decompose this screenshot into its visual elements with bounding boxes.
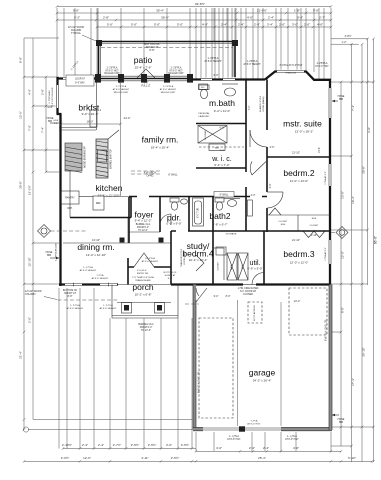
svg-text:3’-0½”: 3’-0½” — [61, 456, 70, 460]
right witness lines — [331, 81, 374, 83]
svg-text:4’-0”: 4’-0” — [202, 23, 208, 27]
mbath north wall — [192, 78, 265, 80]
hall west wall — [245, 168, 247, 231]
svg-text:6’-6” x 5’-0”: 6’-6” x 5’-0” — [247, 267, 262, 271]
pdr west wall — [159, 197, 161, 233]
svg-text:brkfst.: brkfst. — [78, 103, 101, 113]
svg-text:8” WALL: 8” WALL — [220, 194, 230, 197]
svg-text:13’-4” x 12’-10”: 13’-4” x 12’-10” — [86, 253, 106, 257]
util east wall — [263, 231, 265, 285]
svg-text:LDGR AT: LDGR AT — [75, 78, 85, 81]
svg-text:17’-4”: 17’-4” — [351, 378, 355, 386]
foyer west wall — [128, 197, 130, 244]
svg-text:SOFFIT AT: SOFFIT AT — [165, 274, 177, 277]
svg-text:3’-4”: 3’-4” — [267, 23, 273, 27]
svg-text:5’-0”: 5’-0” — [131, 23, 137, 27]
svg-text:BIB: BIB — [339, 98, 343, 101]
svg-text:6’-0” TUB: 6’-0” TUB — [198, 208, 200, 218]
dimension tier T1 — [57, 12, 331, 14]
front wall study segment — [171, 283, 196, 285]
svg-text:1- ¹⁄₂”PLA: 1- ¹⁄₂”PLA — [229, 435, 239, 438]
svg-text:8’-8”: 8’-8” — [149, 48, 154, 52]
svg-text:25’-4”: 25’-4” — [258, 456, 266, 460]
svg-text:10’-4” x 10’-4”: 10’-4” x 10’-4” — [189, 258, 208, 262]
svg-text:3’-0”: 3’-0” — [269, 183, 272, 188]
garage north wall — [196, 283, 331, 285]
svg-text:1- ³⁄₀”PLA: 1- ³⁄₀”PLA — [70, 304, 80, 307]
top wall brkfst segment — [57, 77, 99, 79]
left exterior wall lower — [59, 114, 61, 286]
svg-text:MULLED UNIT: MULLED UNIT — [114, 92, 129, 94]
bedrm3 north wall — [246, 230, 331, 232]
kitchen ref — [93, 196, 104, 210]
svg-text:9’-4” x 11’-0”: 9’-4” x 11’-0” — [214, 109, 231, 113]
pdr east wall — [188, 197, 190, 232]
master bedroom door swing — [250, 130, 267, 147]
top witness lines to house wall — [56, 8, 58, 77]
section marker left — [38, 225, 51, 238]
svg-text:4’-6”: 4’-6” — [28, 89, 32, 95]
svg-text:16’-0”: 16’-0” — [87, 120, 94, 124]
patio soffit dashed line — [101, 47, 233, 49]
svg-text:1- ³⁄₀”PLA: 1- ³⁄₀”PLA — [83, 266, 93, 269]
svg-text:MULLED UNIT: MULLED UNIT — [161, 92, 176, 94]
svg-text:TO 12’-0”: TO 12’-0” — [141, 329, 151, 332]
svg-text:¹⁄₂”PLA AT 8’-0”: ¹⁄₂”PLA AT 8’-0” — [324, 171, 327, 185]
hose bib left — [50, 122, 59, 124]
foyer hall opening line — [128, 242, 171, 244]
svg-text:DOOR (BARN): DOOR (BARN) — [262, 96, 265, 111]
svg-text:2’-7½”: 2’-7½” — [113, 443, 122, 447]
svg-text:19’-4” x 20’-4”: 19’-4” x 20’-4” — [151, 146, 170, 150]
svg-text:1- 3’6”PLA: 1- 3’6”PLA — [208, 57, 219, 60]
kitchen south wall — [70, 217, 128, 219]
svg-text:WOOD BURNING FP: WOOD BURNING FP — [85, 145, 87, 168]
svg-text:12’-6”: 12’-6” — [19, 111, 23, 119]
svg-text:9’-0”: 9’-0” — [73, 9, 79, 13]
svg-text:PANTRY: PANTRY — [65, 197, 75, 200]
svg-text:13’-4”: 13’-4” — [294, 299, 301, 303]
svg-text:9’-4” x 12’-2”: 9’-4” x 12’-2” — [135, 219, 152, 223]
mbath east wall — [245, 80, 247, 169]
svg-text:2’-0”: 2’-0” — [279, 23, 285, 27]
svg-text:16’-8”PLA: 16’-8”PLA — [145, 257, 155, 260]
hose bib right top — [332, 100, 338, 102]
svg-text:21’-4”: 21’-4” — [19, 351, 23, 359]
svg-text:AT 8’-0” HEIGHT.: AT 8’-0” HEIGHT. — [67, 307, 84, 310]
svg-text:4’-0”: 4’-0” — [216, 446, 222, 450]
svg-text:2- 2’8”PLA: 2- 2’8”PLA — [116, 85, 127, 88]
kitchen-bar east wall — [130, 197, 132, 218]
interior dim line family-kitchen — [120, 82, 122, 196]
bottom tier row1 garage — [196, 450, 341, 452]
wic south wall — [196, 167, 246, 169]
svg-text:16’-2½”: 16’-2½” — [28, 185, 32, 195]
transom window in bay — [277, 70, 304, 74]
svg-text:8’-0”: 8’-0” — [168, 278, 173, 280]
svg-text:BIB: BIB — [48, 120, 52, 123]
left long witness to bottom — [33, 419, 192, 421]
svg-text:24’-2” x 26’-4”: 24’-2” x 26’-4” — [253, 379, 272, 383]
foyer south wall and entry — [128, 266, 171, 268]
svg-text:2- 2’8”PLA AT: 2- 2’8”PLA AT — [48, 90, 51, 104]
study closet — [213, 247, 224, 249]
right top witness lines — [331, 38, 368, 40]
svg-text:porch: porch — [132, 282, 154, 292]
svg-text:SHAKER STYLE: SHAKER STYLE — [259, 95, 262, 112]
study east wall — [212, 231, 214, 285]
svg-text:AT 8’-0” HGT.: AT 8’-0” HGT. — [285, 438, 299, 441]
svg-text:4’-0”: 4’-0” — [247, 16, 253, 20]
svg-text:2’-4”: 2’-4” — [82, 443, 88, 447]
svg-text:2’-10”: 2’-10” — [311, 234, 317, 237]
svg-text:2’-8”: 2’-8” — [254, 23, 260, 27]
bottom tier row1 left — [63, 448, 196, 450]
svg-text:4’-11”: 4’-11” — [141, 456, 148, 460]
svg-text:AT 8’-0” HEIGHT: AT 8’-0” HEIGHT — [204, 60, 222, 63]
svg-text:AT 8’-0” HEIGHT.: AT 8’-0” HEIGHT. — [92, 277, 109, 280]
shower enclosure — [198, 126, 227, 144]
svg-text:4’-0”: 4’-0” — [317, 23, 323, 27]
svg-text:3’-5½”: 3’-5½” — [131, 443, 140, 447]
svg-text:HDR: HDR — [54, 120, 59, 122]
svg-text:8’-0”: 8’-0” — [214, 74, 219, 77]
svg-text:REF.: REF. — [96, 202, 102, 205]
svg-text:36’-0”: 36’-0” — [161, 16, 169, 20]
svg-text:1’-2”: 1’-2” — [341, 41, 346, 44]
right dimension line E x373 — [373, 39, 375, 462]
closet shelf line — [267, 214, 331, 216]
svg-text:¹⁄₂”PLA: ¹⁄₂”PLA — [96, 274, 104, 277]
svg-text:OPNG: OPNG — [146, 175, 153, 178]
svg-text:30’-8”: 30’-8” — [361, 166, 365, 174]
svg-text:25’-4” x 7’-6”: 25’-4” x 7’-6” — [135, 66, 152, 70]
svg-text:family rm.: family rm. — [142, 135, 179, 145]
master suite bay bump wall — [265, 72, 331, 80]
svg-text:12’-0”: 12’-0” — [341, 251, 345, 259]
svg-text:8’x8” O.H. GAR. DR.: 8’x8” O.H. GAR. DR. — [325, 319, 328, 341]
svg-text:WASH: WASH — [230, 263, 233, 270]
svg-text:PEDESTAL: PEDESTAL — [198, 112, 210, 115]
util door to garage — [196, 288, 207, 302]
svg-text:AT 8’-0” HEIGHT: AT 8’-0” HEIGHT — [243, 63, 261, 66]
left wall jog step — [57, 113, 62, 115]
svg-text:8” WALL: 8” WALL — [168, 174, 178, 177]
garage attic dashed rect right — [289, 288, 327, 335]
bath2 sink — [227, 200, 236, 207]
svg-text:1- ¹⁄₂”PLA: 1- ¹⁄₂”PLA — [287, 435, 297, 438]
bath2 north wall — [129, 196, 267, 198]
svg-text:LAVATORY: LAVATORY — [198, 115, 210, 118]
svg-text:CLOSET: CLOSET — [218, 261, 220, 270]
svg-text:9’-0”: 9’-0” — [214, 295, 219, 298]
util door swing — [252, 273, 264, 285]
garage south wall — [193, 427, 332, 430]
left dimension line A — [23, 38, 25, 430]
svg-text:49’-8½”: 49’-8½” — [195, 2, 205, 6]
svg-text:7’-4”: 7’-4” — [351, 105, 355, 111]
bath2 toilet — [215, 198, 224, 202]
svg-text:2- 2’8”PLA: 2- 2’8”PLA — [171, 67, 182, 70]
porch beam line — [117, 302, 171, 304]
svg-text:TYPICAL: TYPICAL — [71, 32, 82, 35]
svg-text:3’-0”: 3’-0” — [251, 194, 256, 197]
svg-text:BOTTOM OF: BOTTOM OF — [164, 272, 178, 274]
svg-text:AT 8’-0” HGT: AT 8’-0” HGT — [315, 65, 329, 68]
svg-text:21’-10”: 21’-10” — [292, 238, 300, 242]
svg-text:2’-4”: 2’-4” — [98, 443, 104, 447]
svg-text:30’-8”: 30’-8” — [19, 181, 23, 189]
svg-text:R&S: R&S — [220, 150, 225, 152]
porch column west — [122, 303, 132, 314]
svg-text:2’-4”: 2’-4” — [221, 23, 227, 27]
svg-text:MULLED UNIT: MULLED UNIT — [104, 73, 120, 75]
svg-text:BARREL BAR TOP: BARREL BAR TOP — [110, 149, 113, 169]
svg-text:AT 8’-0” HEIGHT.: AT 8’-0” HEIGHT. — [142, 260, 159, 263]
svg-text:w. i. c.: w. i. c. — [211, 156, 232, 163]
svg-text:1’-9” TEMP 6’-8” HIGH: 1’-9” TEMP 6’-8” HIGH — [132, 277, 154, 279]
svg-text:TRANSOM: TRANSOM — [285, 72, 296, 75]
svg-text:7’-4”: 7’-4” — [248, 105, 251, 110]
kitchen west counter — [69, 170, 71, 218]
svg-text:8’-0”: 8’-0” — [341, 307, 345, 313]
pdr door swing — [160, 214, 171, 225]
mbath toilet — [199, 85, 209, 90]
svg-text:CLOSET: CLOSET — [279, 221, 288, 223]
svg-text:W.C.: W.C. — [201, 87, 206, 89]
svg-text:R&S: R&S — [281, 224, 286, 226]
svg-text:6’8”: 6’8” — [54, 123, 58, 125]
svg-text:5’-8” x 9’-7”: 5’-8” x 9’-7” — [212, 223, 227, 227]
svg-text:11’-0” x 13’-0”: 11’-0” x 13’-0” — [290, 179, 308, 183]
porch column east — [155, 303, 165, 314]
mbath south wall — [196, 123, 246, 125]
right dimension line C x362 — [361, 44, 363, 462]
entry door transom triangle — [134, 253, 154, 267]
svg-text:2’-4”: 2’-4” — [268, 16, 274, 20]
svg-text:AT 8’-0” HEIGHT: AT 8’-0” HEIGHT — [160, 88, 177, 91]
kitchen SE corner line — [127, 218, 129, 244]
bath2 east wall — [212, 197, 214, 232]
svg-text:9’-8”: 9’-8” — [297, 16, 303, 20]
dimension tier T0 overall width 49-8 — [57, 6, 331, 8]
garage west wall — [193, 285, 196, 431]
closet bifold doors — [269, 208, 281, 215]
svg-text:TRANSOM ABV: TRANSOM ABV — [135, 279, 151, 282]
svg-text:12’-0” x 12’-0”: 12’-0” x 12’-0” — [290, 261, 309, 265]
right dimension line D x367 — [367, 39, 369, 285]
porch slab edge — [112, 315, 178, 317]
pdr toilet — [170, 198, 179, 202]
svg-text:bath2: bath2 — [209, 211, 231, 221]
svg-text:3’-8½”: 3’-8½” — [344, 34, 351, 38]
svg-text:13’-0”: 13’-0” — [341, 191, 345, 199]
svg-text:6’-6”: 6’-6” — [220, 127, 225, 130]
svg-text:10’-2” x 6’-8”: 10’-2” x 6’-8” — [135, 293, 152, 297]
svg-text:CLOSET: CLOSET — [310, 225, 319, 227]
left exterior wall upper jog — [56, 77, 58, 114]
master-bedrm2 divider wall — [267, 156, 331, 158]
svg-text:8’-9”: 8’-9” — [19, 57, 23, 63]
bottom witness lines — [58, 288, 60, 449]
svg-text:BIB: BIB — [339, 421, 343, 424]
svg-text:garage: garage — [249, 368, 276, 378]
svg-text:3’-0”: 3’-0” — [166, 443, 172, 447]
svg-text:8’-0”PLA AT 8’-0” HGT: 8’-0”PLA AT 8’-0” HGT — [280, 64, 303, 67]
bottom tier row2 and overall — [24, 460, 372, 462]
section marker right — [336, 227, 348, 239]
svg-text:bedrm.3: bedrm.3 — [283, 249, 314, 259]
brkfst north window — [63, 77, 92, 81]
dining east wall — [127, 258, 129, 285]
svg-text:3- 2’8”PLA: 3- 2’8”PLA — [317, 62, 328, 65]
right dimension line A x341 — [340, 82, 342, 446]
svg-text:5’-0”: 5’-0” — [107, 23, 113, 27]
svg-text:21’-10”: 21’-10” — [292, 151, 300, 155]
svg-text:7’-6”: 7’-6” — [28, 125, 32, 131]
hose bib right bottom — [332, 414, 339, 416]
svg-text:SHOWER: SHOWER — [205, 130, 207, 140]
brkfst east boundary line — [96, 82, 98, 130]
svg-text:12’-0½”: 12’-0½” — [257, 9, 267, 13]
svg-text:9’-0” BAY: 9’-0” BAY — [75, 82, 85, 85]
svg-text:7’-4”: 7’-4” — [41, 127, 45, 133]
svg-text:DRY: DRY — [242, 264, 244, 269]
svg-text:BARREL CLG: BARREL CLG — [136, 223, 151, 226]
svg-text:8’-8”: 8’-8” — [68, 295, 73, 298]
fireplace masonry — [65, 143, 82, 171]
garage door witness lines interior — [237, 300, 239, 426]
brkfst counter line — [59, 129, 96, 131]
master west wall — [266, 80, 268, 233]
svg-text:AT 8’-0” HGT.: AT 8’-0” HGT. — [247, 423, 261, 426]
svg-text:1- 2’8”PLA: 1- 2’8”PLA — [247, 60, 258, 63]
svg-text:1- ³⁄₀”PLA: 1- ³⁄₀”PLA — [103, 304, 113, 307]
svg-text:4’-6”: 4’-6” — [270, 146, 275, 149]
svg-text:FROM 9’-0”: FROM 9’-0” — [137, 227, 149, 229]
svg-text:2’-0”: 2’-0” — [304, 23, 310, 27]
svg-text:TO 12’-0”: TO 12’-0” — [138, 230, 148, 232]
svg-text:STORAGE: STORAGE — [226, 233, 237, 236]
svg-text:26’-10”: 26’-10” — [361, 347, 365, 356]
svg-text:MULLED UNIT: MULLED UNIT — [168, 73, 184, 75]
svg-text:6’-4” x 7’-4”: 6’-4” x 7’-4” — [214, 163, 229, 167]
svg-text:4’-0”: 4’-0” — [293, 446, 299, 450]
closet divider — [297, 215, 299, 231]
foyer east wall — [129, 231, 160, 233]
svg-text:24’-0”: 24’-0” — [124, 116, 131, 120]
patio walls — [98, 42, 100, 78]
svg-text:ATTIC ACCESS: ATTIC ACCESS — [253, 305, 256, 321]
svg-text:2’-4”: 2’-4” — [249, 446, 255, 450]
patio corner piers — [96, 40, 102, 46]
garage east wall — [329, 285, 332, 431]
svg-text:2’-4”: 2’-4” — [263, 446, 269, 450]
pull light triangle — [137, 69, 155, 78]
svg-text:2’-8”: 2’-8” — [103, 16, 109, 20]
svg-text:13’-6” x 12’-10½”: 13’-6” x 12’-10½” — [98, 194, 121, 198]
wic shelving dashes — [199, 146, 244, 148]
svg-text:bedrm.4: bedrm.4 — [182, 249, 213, 259]
interior dim line brkfst — [61, 123, 121, 125]
porch front soffit dashed — [58, 299, 118, 301]
svg-text:66’-8”: 66’-8” — [373, 236, 377, 244]
brkfst bay callout — [66, 75, 94, 86]
bedrm2 door swing — [267, 192, 283, 208]
svg-text:5’-10”: 5’-10” — [348, 456, 356, 460]
dimension tier T2 — [57, 19, 331, 21]
linen cabinet — [209, 144, 225, 151]
svg-text:3’-5½”: 3’-5½” — [171, 456, 180, 460]
svg-text:COLUMN: COLUMN — [25, 293, 36, 296]
svg-text:5’-0”: 5’-0” — [154, 23, 160, 27]
8in wall callout — [214, 192, 234, 198]
garage door openings — [203, 426, 239, 431]
svg-text:2’-0”: 2’-0” — [28, 317, 32, 323]
dimension tier T3 — [97, 26, 331, 28]
garage soffit dash — [185, 303, 199, 305]
mbath vanity sink — [225, 88, 236, 96]
svg-text:9’-0” x 10’-2”: 9’-0” x 10’-2” — [82, 112, 99, 116]
linen cabinet hall — [247, 200, 252, 216]
svg-text:mstr. suite: mstr. suite — [283, 119, 322, 129]
svg-text:2’-10½”: 2’-10½” — [62, 443, 72, 447]
kitchen counter edge — [79, 196, 93, 198]
kitchen island — [96, 139, 108, 178]
right exterior wall — [329, 80, 331, 286]
study west wall — [170, 231, 172, 285]
svg-text:bedrm.2: bedrm.2 — [283, 168, 314, 178]
hose bib left lower — [50, 257, 59, 259]
svg-text:AT 8’-0” HEIGHT.: AT 8’-0” HEIGHT. — [80, 269, 97, 272]
foyer arch piers — [120, 238, 125, 243]
svg-text:13’-0”: 13’-0” — [318, 147, 321, 153]
svg-text:CLOSER: CLOSER — [243, 293, 253, 296]
svg-text:35’-4”: 35’-4” — [156, 9, 164, 13]
attic access ladder dashed — [248, 302, 262, 323]
svg-text:19’-4”: 19’-4” — [351, 196, 355, 204]
svg-text:¹⁄₂”PLA AT 8’-0”: ¹⁄₂”PLA AT 8’-0” — [324, 247, 327, 261]
svg-text:13’-0” x 18’-2”: 13’-0” x 18’-2” — [295, 130, 314, 134]
svg-text:W.H.: W.H. — [67, 207, 73, 210]
pdr sink — [181, 199, 188, 204]
garage center post — [239, 426, 245, 431]
svg-text:m.bath: m.bath — [209, 98, 235, 108]
svg-text:HDR: HDR — [48, 107, 53, 109]
svg-text:BIB: BIB — [47, 254, 51, 257]
svg-text:8’x8” O.H. GAR. DR.: 8’x8” O.H. GAR. DR. — [198, 371, 201, 393]
svg-text:2- 2’8”PLA: 2- 2’8”PLA — [107, 67, 118, 70]
svg-text:kitchen: kitchen — [96, 183, 123, 193]
mbath wc box — [199, 84, 208, 90]
svg-text:8’-0” HGT MULLED: 8’-0” HGT MULLED — [52, 87, 54, 106]
svg-text:8’-0”: 8’-0” — [226, 295, 231, 298]
svg-text:3’-0”: 3’-0” — [367, 127, 371, 133]
svg-text:dining rm.: dining rm. — [77, 242, 114, 252]
svg-text:AT 8’-0” HEIGHT: AT 8’-0” HEIGHT — [113, 88, 130, 91]
washer dryer — [227, 253, 237, 280]
right dimension line B x351 — [351, 44, 353, 462]
svg-text:12’-10”: 12’-10” — [28, 257, 32, 266]
svg-text:AT 8’-0” HGT.: AT 8’-0” HGT. — [227, 438, 241, 441]
svg-text:PULL LT.: PULL LT. — [141, 85, 151, 88]
left witness lines — [24, 37, 59, 39]
svg-text:5’-0” x 9’-0”: 5’-0” x 9’-0” — [166, 222, 181, 226]
pantry — [61, 191, 79, 204]
left dimension line B — [32, 38, 34, 420]
svg-text:2- 2’8”PLA: 2- 2’8”PLA — [163, 85, 174, 88]
svg-text:ENTRY DR.: ENTRY DR. — [137, 273, 149, 275]
